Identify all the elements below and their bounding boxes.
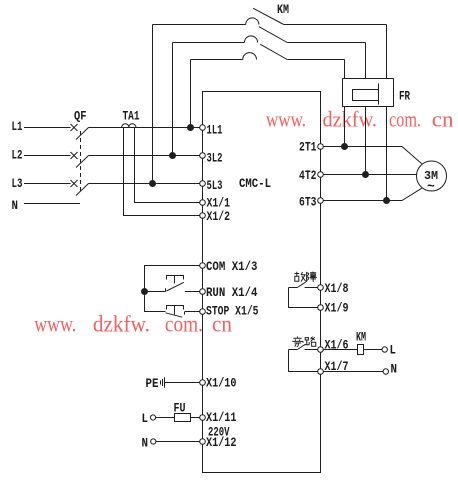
wire KM3 right drop to FR: [344, 60, 346, 80]
terminal 3L2: [200, 153, 206, 159]
terminal X1/6: [318, 347, 324, 353]
soft starter CMC-L box: [203, 92, 321, 473]
node N right: [383, 369, 388, 374]
svg-text:X1/8: X1/8: [325, 281, 349, 296]
relay contact fault: [289, 282, 318, 287]
wire KM coil to L: [364, 349, 383, 351]
wire L to FU: [156, 417, 175, 419]
svg-text:KM: KM: [356, 330, 366, 345]
svg-text:L: L: [390, 343, 397, 358]
svg-text:3L2: 3L2: [207, 151, 223, 166]
label fault guzhang: [294, 272, 316, 282]
contactor KM contact 2: [173, 27, 366, 43]
svg-text:TA1: TA1: [123, 109, 140, 124]
svg-text:X1/12: X1/12: [206, 435, 237, 450]
svg-text:dzkfw.: dzkfw.: [93, 312, 150, 337]
pushbutton RUN: [166, 276, 200, 292]
svg-text:2T1: 2T1: [299, 140, 317, 155]
terminal X1/11: [200, 415, 206, 421]
svg-text:6T3: 6T3: [299, 195, 317, 210]
svg-text:L3: L3: [12, 176, 23, 191]
svg-text:QF: QF: [74, 109, 87, 124]
terminal X1/2: [200, 213, 206, 219]
svg-text:STOP X1/5: STOP X1/5: [206, 304, 259, 319]
terminal 4T2: [318, 172, 324, 178]
fuse FU: [175, 414, 191, 422]
svg-text:COM X1/3: COM X1/3: [206, 259, 258, 274]
wire X1/6 to KM coil: [323, 349, 357, 351]
CT TA1 winding 1: [122, 124, 129, 128]
svg-text:X1/9: X1/9: [325, 301, 349, 316]
svg-text:5L3: 5L3: [207, 178, 223, 193]
wire 2T1 to motor: [323, 147, 422, 164]
wire FR to 2T1: [344, 107, 346, 147]
wire L1 in: [24, 127, 71, 129]
wire KM1 right drop to FR: [386, 25, 388, 80]
terminal 1L1: [200, 125, 206, 131]
wire 4T2 to motor: [323, 174, 416, 176]
junction 6T3: [384, 198, 390, 204]
wire L2 in: [24, 155, 71, 157]
wire TA1 secondary to X1/1: [135, 128, 200, 203]
svg-text:L2: L2: [12, 148, 23, 163]
terminal RUN X1/4: [200, 289, 206, 295]
junction 5L3: [150, 181, 156, 187]
watermark bottom: [34, 312, 232, 337]
svg-text:1L1: 1L1: [207, 123, 223, 138]
junction 2T1: [342, 144, 348, 150]
terminal X1/1: [200, 200, 206, 206]
breaker QF pole 2: [71, 152, 200, 168]
svg-text:dzkfw.: dzkfw.: [323, 107, 378, 132]
wire KM2 left drop to 3L2: [172, 43, 174, 156]
wire PE to X1/10: [165, 382, 200, 384]
svg-text:4T2: 4T2: [299, 168, 317, 183]
terminal 5L3: [200, 181, 206, 187]
thermal relay FR box: [343, 79, 394, 107]
wire 6T3 to motor: [323, 188, 422, 200]
wire N in: [24, 203, 80, 205]
wire FR to 4T2: [365, 107, 367, 175]
wire L3 in: [24, 183, 71, 185]
contactor KM contact 3: [191, 44, 345, 59]
svg-text:X1/11: X1/11: [206, 410, 237, 425]
wire COM loop: [145, 266, 200, 312]
junction 4T2: [363, 172, 369, 178]
relay contact bypass: [289, 344, 318, 349]
svg-text:CMC-L: CMC-L: [239, 176, 271, 191]
watermark top: [266, 107, 454, 132]
svg-text:FU: FU: [174, 401, 186, 416]
node L right: [382, 347, 387, 352]
junction RUN: [142, 289, 148, 295]
contactor KM contact 1: [153, 8, 387, 24]
coil KM: [358, 345, 364, 355]
ground PE symbol: [161, 377, 165, 387]
svg-text:www.: www.: [34, 312, 76, 337]
svg-text:~: ~: [427, 179, 435, 194]
wire RUN feed: [145, 291, 166, 293]
junction 3L2: [170, 153, 176, 159]
terminal X1/9: [318, 305, 324, 311]
wire TA1 secondary to X1/2: [124, 128, 200, 216]
svg-text:N: N: [12, 198, 19, 213]
svg-text:com.: com.: [389, 107, 421, 132]
terminal X1/10: [200, 380, 206, 386]
wire KM3 left drop to 1L1: [190, 60, 192, 128]
breaker QF linkage: [80, 131, 82, 192]
terminal COM X1/3: [200, 263, 206, 269]
breaker QF pole 1: [71, 124, 200, 140]
terminal X1/8: [318, 285, 324, 291]
wire FU to X1/11: [191, 417, 200, 419]
wire KM1 left drop to 5L3: [152, 25, 154, 184]
svg-text:cn: cn: [432, 107, 454, 132]
wire fault loop: [289, 288, 318, 308]
junction 1L1: [188, 125, 194, 131]
svg-text:N: N: [391, 362, 398, 377]
wire KM2 right drop to FR: [365, 43, 367, 80]
wire X1/7 to N: [323, 371, 383, 373]
svg-text:PE: PE: [146, 376, 159, 391]
svg-text:L: L: [142, 411, 149, 426]
terminal STOP X1/5: [200, 309, 206, 315]
svg-text:com.: com.: [165, 312, 203, 337]
motor 3M: [417, 161, 447, 191]
terminal X1/7: [318, 369, 324, 375]
svg-text:RUN X1/4: RUN X1/4: [206, 285, 258, 300]
svg-text:www.: www.: [266, 107, 306, 132]
svg-text:X1/10: X1/10: [206, 376, 237, 391]
svg-text:X1/6: X1/6: [325, 338, 349, 353]
breaker QF pole 3: [71, 180, 200, 196]
svg-text:X1/2: X1/2: [207, 209, 231, 224]
pushbutton STOP: [166, 306, 200, 318]
label bypass panglu: [292, 336, 316, 346]
wire bypass loop: [289, 350, 318, 372]
thermal relay FR element: [353, 84, 379, 105]
CT TA1 winding 2: [129, 124, 136, 128]
svg-text:N: N: [142, 436, 149, 451]
terminal X1/12: [200, 439, 206, 445]
terminal 2T1: [318, 144, 324, 150]
svg-text:FR: FR: [399, 89, 410, 104]
wire FR to 6T3: [386, 107, 388, 201]
terminal 6T3: [318, 198, 324, 204]
svg-text:KM: KM: [277, 2, 289, 17]
wire N to X1/12: [156, 441, 200, 443]
svg-text:L1: L1: [12, 119, 23, 134]
